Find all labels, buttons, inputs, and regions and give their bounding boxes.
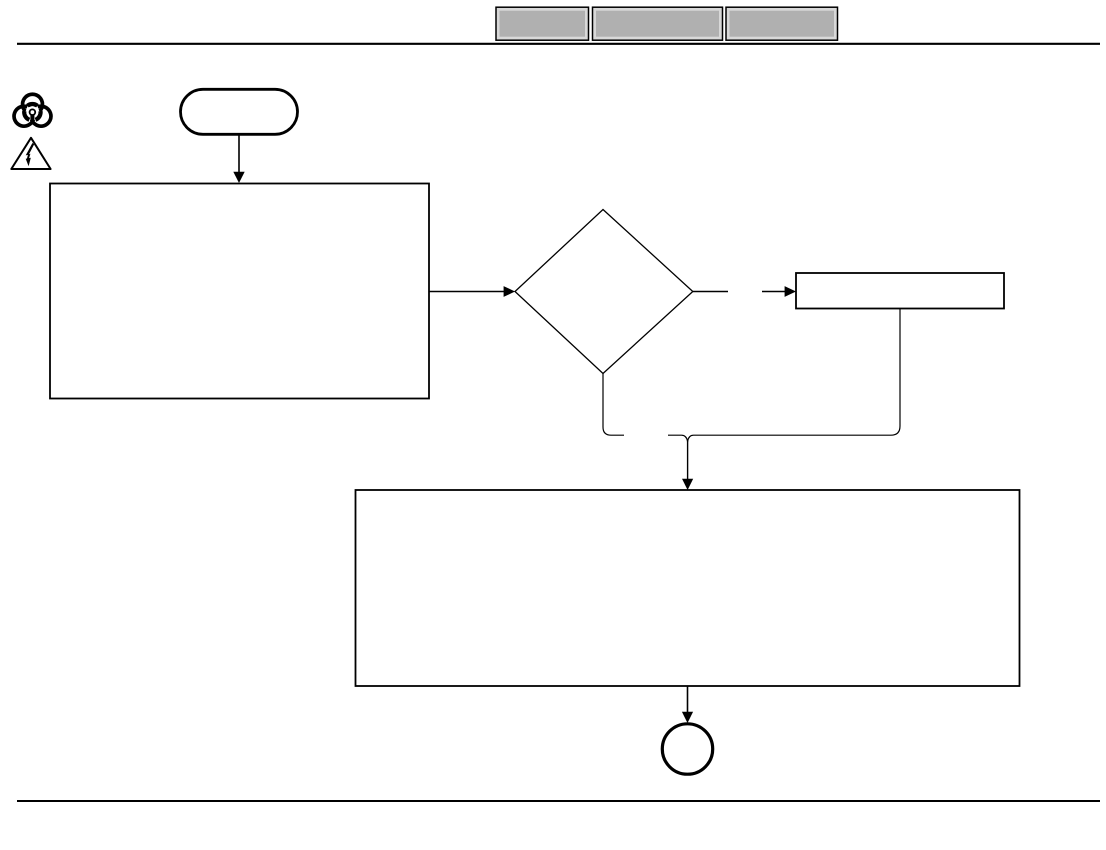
- wire: arrow from merge point into process box 2: [682, 441, 693, 490]
- process box 1 (large left rectangle): [50, 184, 429, 399]
- start node (stadium / terminator): [181, 89, 298, 134]
- button 1 (top toolbar): [496, 7, 589, 40]
- electrical hazard warning triangle: [11, 138, 50, 169]
- button 2 (top toolbar): [593, 7, 723, 40]
- wire: arrow into action box: [762, 286, 796, 297]
- wire: arrow from process box 1 to decision diamond: [429, 286, 515, 297]
- wire: arrow from start node to process box 1: [233, 134, 244, 183]
- action box (small right rectangle): [796, 273, 1004, 309]
- end node (circle): [662, 724, 712, 774]
- wire: from diamond bottom vertex down and right (with gap): [603, 374, 624, 436]
- wire: from action box down, left, merging funnel into down arrow: [688, 309, 900, 442]
- top horizontal rule: [17, 43, 1100, 45]
- decision diamond: [515, 210, 693, 374]
- bottom horizontal rule: [17, 800, 1100, 802]
- process box 2 (large bottom rectangle): [356, 490, 1020, 686]
- wire: arrow from process box 2 to end circle: [682, 686, 693, 723]
- biohazard symbol: [11, 94, 55, 129]
- button 3 (top toolbar): [726, 7, 838, 40]
- wire: segment from diamond right vertex: [693, 291, 728, 293]
- wire: left lip of merge funnel: [668, 435, 688, 441]
